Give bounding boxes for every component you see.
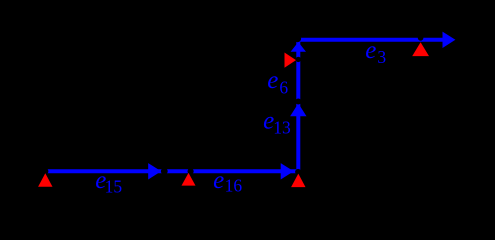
svg-text:6: 6 xyxy=(279,78,288,98)
node M1 vertex dot (mid vertical) xyxy=(295,99,301,105)
label e16 xyxy=(213,167,242,196)
node G vertex dot (on e3) xyxy=(418,35,424,41)
svg-text:e: e xyxy=(365,37,376,64)
node F corner vertex dot (top corner) xyxy=(294,35,301,42)
arrowhead of edge e16 (pointing right) xyxy=(281,163,294,179)
marker triangle at node D xyxy=(291,174,305,188)
svg-text:15: 15 xyxy=(105,176,123,196)
marker triangle at node A xyxy=(38,173,52,187)
svg-text:3: 3 xyxy=(377,47,386,67)
label e3 xyxy=(365,37,386,67)
marker triangle at node G xyxy=(412,42,429,56)
node C vertex dot xyxy=(188,168,194,174)
wire: bottom horizontal edge line (e15/e16 path) xyxy=(46,169,298,173)
arrowhead of edge e3 (pointing right) xyxy=(443,32,456,48)
label e13 xyxy=(263,107,291,137)
node M2 vertex dot (upper vertical) xyxy=(296,57,301,62)
arrowhead of edge e13 (pointing up) xyxy=(290,103,306,116)
node D corner vertex dot xyxy=(295,169,301,175)
node B vertex dot xyxy=(161,168,168,175)
label e6 xyxy=(267,67,288,98)
arrowhead of edge e15 (pointing right) xyxy=(148,163,161,179)
wire: vertical edge line (e13/e6 path) xyxy=(296,40,300,174)
node A vertex dot (black, over line start) xyxy=(42,168,48,174)
svg-text:13: 13 xyxy=(273,118,291,138)
wire: top horizontal edge line (e3 path) xyxy=(298,38,446,42)
arrowhead of edge e6 (pointing up) xyxy=(291,42,306,52)
label e15 xyxy=(95,167,122,196)
svg-text:e: e xyxy=(213,167,224,194)
marker triangle at node M2 (pointing right) xyxy=(285,53,297,68)
marker triangle at node C xyxy=(182,173,196,186)
svg-text:16: 16 xyxy=(225,176,243,196)
svg-text:e: e xyxy=(267,67,278,94)
